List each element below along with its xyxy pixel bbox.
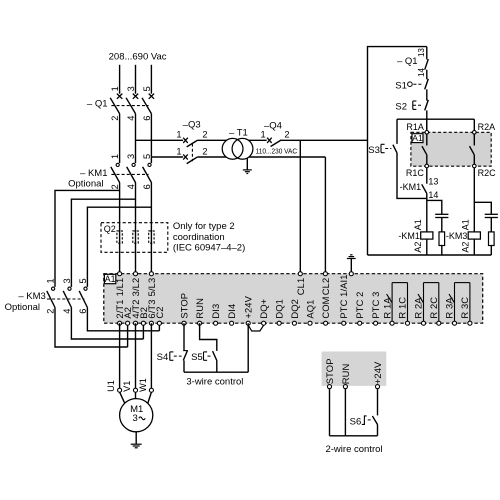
contactor KM3 pole contact 5-6 [79, 287, 87, 307]
svg-text:2-wire control: 2-wire control [325, 444, 382, 455]
pushbutton S2 contact [413, 100, 429, 111]
coil KM3 [468, 232, 480, 239]
svg-text:R 2C: R 2C [428, 297, 439, 319]
svg-text:Q2: Q2 [104, 224, 116, 234]
terminal +24V [246, 321, 250, 325]
ground motor [131, 432, 142, 448]
terminal PTC 1/AI1 [342, 321, 346, 325]
wire bypass tap 1 [55, 190, 120, 287]
capacitor snubber 2 [485, 214, 498, 217]
capacitor snubber 1 [435, 214, 448, 217]
breaker Q1 mechanical link [111, 105, 148, 107]
wire control return rail [368, 254, 492, 256]
wire S3 branch lower [397, 153, 427, 199]
wire node R1A stub [426, 119, 428, 130]
svg-text:–Q3: –Q3 [183, 120, 201, 131]
wire KM1 to terminal L1 [119, 183, 121, 274]
terminal R 1A [390, 321, 394, 325]
relay contact R2A-R2C [470, 134, 475, 164]
svg-text:U1: U1 [106, 380, 116, 392]
svg-text:2: 2 [110, 116, 120, 121]
svg-text:RUN: RUN [194, 298, 205, 319]
terminal CL2 [323, 272, 327, 276]
wire stub terminal A2 [127, 323, 129, 347]
svg-text:– Q1: – Q1 [87, 98, 108, 109]
terminal 6/T3 [149, 321, 153, 325]
terminal 3/L2 [133, 272, 137, 276]
svg-text:1: 1 [110, 86, 120, 91]
wire bypass tap 2 [71, 199, 135, 287]
fuse group Q2 dashed box [101, 223, 168, 253]
wire KM1 to terminal L2 [135, 183, 137, 274]
svg-text:(IEC 60947–4–2): (IEC 60947–4–2) [173, 243, 245, 254]
switch S6 contact [362, 416, 378, 425]
breaker Q1 pole contact 3-4 [126, 94, 138, 114]
wire stub terminal C2 [158, 323, 160, 331]
wire KM1 coil to rail [426, 239, 428, 255]
svg-text:S1: S1 [395, 80, 407, 91]
contactor KM3 pole contact 1-2 [47, 287, 55, 307]
terminal 2/T1 [118, 321, 122, 325]
svg-text:Optional: Optional [68, 178, 103, 189]
terminal PTC 3 [374, 321, 378, 325]
wire S6 to rail [377, 425, 379, 436]
2-wire control box [322, 352, 387, 386]
wire S4 to rail [183, 360, 185, 372]
svg-text:C2: C2 [154, 306, 165, 318]
svg-text:1: 1 [176, 146, 181, 156]
svg-text:5: 5 [142, 154, 152, 159]
wire RUN to S5 [200, 323, 217, 351]
wire supply drop L1 [119, 65, 121, 94]
terminal earth [349, 272, 353, 276]
wire Q1aux to S1 [426, 70, 428, 80]
wire resistor 1 to rail [441, 246, 443, 256]
svg-text:RUN: RUN [340, 364, 351, 385]
wire U1 to motor [120, 392, 125, 404]
wire W1 to motor [148, 392, 152, 404]
svg-text:A2: A2 [460, 242, 470, 253]
node R2A [473, 131, 477, 135]
svg-text:-KM3: -KM3 [446, 231, 468, 241]
terminal COM [324, 321, 328, 325]
terminal R 1C [405, 321, 409, 325]
wire S2 to node R1A [426, 110, 428, 130]
wire R2C to KM3 coil [473, 168, 475, 232]
auxiliary contact Q1 13-14 [425, 47, 429, 70]
svg-text:1/L1: 1/L1 [114, 278, 125, 297]
terminal CL1 [298, 272, 302, 276]
device code box A1 main [104, 274, 115, 283]
wire RC snubber 1 tee [427, 200, 442, 214]
contactor KM1 pole contact 5-6 [143, 163, 152, 182]
terminal PTC 2 [358, 321, 362, 325]
node R2C [473, 164, 477, 168]
wire supply drop L3 [150, 65, 152, 94]
wire Q1 to KM1 phase 3 [150, 114, 152, 164]
fuse Q2 element 3 [149, 231, 154, 243]
pushbutton S5 NO contact [204, 351, 217, 360]
terminal R 3A [452, 321, 456, 325]
node R1C [425, 164, 429, 168]
terminal B2 [141, 321, 145, 325]
wire capacitor 2 to resistor 2 [490, 218, 492, 232]
svg-text:+24V: +24V [243, 295, 254, 318]
svg-text:110...230 VAC: 110...230 VAC [256, 146, 298, 155]
relay output contact R1A-R1C [387, 283, 408, 324]
terminal C2 [157, 321, 161, 325]
auxiliary contact KM1 13-14 [422, 184, 427, 193]
svg-text:2: 2 [110, 184, 120, 189]
fuse Q2 element 2 [133, 231, 138, 243]
svg-text:Only for type 2: Only for type 2 [173, 221, 235, 232]
wire KM3 pole1 to A2 [55, 308, 128, 348]
wire +24V to S6 [377, 389, 379, 416]
wire S5 to rail [216, 361, 218, 373]
svg-text:6: 6 [78, 309, 88, 314]
svg-text:R1A: R1A [406, 122, 424, 132]
svg-text:1: 1 [110, 154, 120, 159]
wire S3 branch upper [396, 119, 398, 144]
terminal R 3C [468, 321, 472, 325]
svg-text:4: 4 [126, 116, 136, 121]
transformer T1 secondary winding [232, 138, 253, 159]
svg-text:Optional: Optional [5, 302, 40, 313]
svg-text:S2: S2 [395, 102, 407, 113]
svg-text:208...690 Vac: 208...690 Vac [109, 52, 167, 63]
wire Q1 to KM1 phase 1 [119, 114, 121, 164]
wire bypass tap 3 [87, 207, 151, 287]
fuse Q2 element 1 [117, 231, 122, 243]
wire rail R1A-R2A [397, 118, 474, 120]
terminal RUN [198, 321, 202, 325]
svg-text:DI4: DI4 [226, 304, 237, 319]
pushbutton S1 contact [408, 79, 429, 90]
svg-text:W1: W1 [138, 378, 148, 392]
wire CL1 drop [299, 140, 301, 273]
svg-text:S3: S3 [368, 145, 380, 156]
svg-text:PTC 3: PTC 3 [370, 292, 381, 319]
svg-text:-KM1: -KM1 [398, 231, 420, 241]
wire CL2 drop [324, 157, 326, 274]
wire STOP to S4 [183, 323, 185, 350]
coil KM1 [421, 232, 433, 239]
terminal AQ1 [308, 321, 312, 325]
svg-text:5: 5 [78, 278, 88, 283]
terminal U1 [118, 388, 122, 392]
contactor KM3 pole contact 3-4 [63, 287, 71, 307]
terminal DI3 [214, 321, 218, 325]
wire tap phase2 to Q3 upper [136, 139, 184, 141]
transformer T1 primary winding [222, 138, 243, 159]
wire resistor 2 to rail [490, 246, 492, 256]
svg-text:A1: A1 [412, 133, 423, 143]
svg-text:13: 13 [428, 176, 438, 186]
motor M1 body [120, 399, 153, 432]
svg-text:– T1: – T1 [229, 128, 248, 139]
terminal W1 [149, 388, 153, 392]
relay output contact R3A-R3C [449, 283, 470, 324]
wire 4/T2 to V1 [135, 323, 137, 388]
terminal R 2A [421, 321, 425, 325]
svg-text:STOP: STOP [179, 293, 190, 319]
device code box A1 [412, 134, 423, 143]
svg-text:1: 1 [176, 130, 181, 140]
svg-text:5/L3: 5/L3 [146, 278, 157, 297]
wire R1C to KM1 aux [426, 168, 428, 184]
wire capacitor 1 to resistor 1 [441, 218, 443, 232]
terminal DI4 [230, 321, 234, 325]
node R1A [425, 131, 429, 135]
svg-text:3: 3 [126, 86, 136, 91]
wire 6/T3 to W1 [150, 323, 152, 388]
ground T1 [243, 158, 252, 174]
terminal +24V 2-wire [375, 385, 379, 389]
svg-text:+24V: +24V [372, 361, 383, 384]
svg-text:A1: A1 [460, 219, 470, 230]
switch Q4 contact [267, 138, 281, 147]
svg-text:R 1C: R 1C [397, 297, 408, 319]
svg-text:2: 2 [46, 309, 56, 314]
terminal DQ1 [277, 321, 281, 325]
svg-text:PTC 2: PTC 2 [354, 292, 365, 319]
resistor snubber 1 [439, 232, 445, 246]
earth terminal of soft starter [347, 255, 356, 274]
breaker Q3 upper pole [183, 138, 198, 147]
terminal STOP 2-wire [327, 385, 331, 389]
svg-text:S5: S5 [191, 352, 203, 363]
svg-text:R2C: R2C [478, 168, 497, 178]
contactor KM3 mechanical link [47, 298, 84, 300]
breaker Q3 lower pole [183, 154, 198, 163]
svg-text:4: 4 [62, 309, 72, 314]
svg-text:CL2: CL2 [320, 278, 331, 296]
svg-text:6: 6 [142, 184, 152, 189]
breaker Q1 pole contact 5-6 [142, 94, 154, 114]
terminal V1 [133, 388, 137, 392]
wire S1 to S2 [426, 89, 428, 100]
svg-text:2: 2 [202, 146, 207, 156]
svg-text:1: 1 [261, 130, 266, 140]
svg-text:1: 1 [46, 278, 56, 283]
svg-text:14: 14 [428, 190, 438, 200]
contactor KM1 pole contact 1-2 [111, 163, 120, 182]
soft starter A1 body [104, 274, 483, 324]
svg-text:A2: A2 [413, 242, 423, 253]
svg-text:5: 5 [142, 86, 152, 91]
relay outputs dashed box [411, 132, 491, 166]
svg-text:R 3C: R 3C [459, 297, 470, 319]
svg-text:V1: V1 [122, 381, 132, 392]
svg-text:R2A: R2A [478, 122, 496, 132]
wire KM1 aux to coil [426, 194, 428, 233]
svg-text:DQ+: DQ+ [258, 298, 269, 318]
terminal RUN 2-wire [343, 385, 347, 389]
wire Q3 to T1 upper [198, 139, 267, 141]
relay contact R1A-R1C [422, 134, 427, 164]
wire Q4 to control column [281, 139, 367, 141]
breaker Q3 mechanical link [191, 144, 193, 162]
svg-text:4: 4 [126, 184, 136, 189]
svg-text:DQ1: DQ1 [274, 299, 285, 319]
svg-text:– KM1: – KM1 [80, 168, 107, 179]
svg-text:3-wire control: 3-wire control [186, 376, 243, 387]
svg-text:3: 3 [126, 154, 136, 159]
wire RUN 2-wire [344, 389, 346, 436]
svg-text:3: 3 [133, 413, 138, 424]
wire jumper +24V to DQ+ [248, 325, 263, 331]
svg-text:COM: COM [320, 296, 331, 318]
wire V1 to motor [135, 392, 137, 399]
terminal R 2C [437, 321, 441, 325]
svg-text:A1: A1 [413, 219, 423, 230]
svg-text:2: 2 [284, 130, 289, 140]
svg-text:– KM3: – KM3 [18, 291, 45, 302]
svg-text:2: 2 [202, 130, 207, 140]
svg-text:S4: S4 [157, 352, 169, 363]
wire +24V drop [247, 323, 249, 372]
wire Q1 to KM1 phase 2 [135, 114, 137, 164]
svg-text:S6: S6 [350, 416, 362, 427]
svg-text:DI3: DI3 [210, 304, 221, 319]
wire supply drop L2 [135, 65, 137, 94]
svg-text:– Q1: – Q1 [397, 56, 418, 67]
wire Q3 to CL2 lower [198, 156, 326, 158]
svg-text:CL1: CL1 [295, 278, 306, 296]
terminal 4/T2 [133, 321, 137, 325]
svg-text:14: 14 [417, 68, 426, 77]
wire control feed riser [368, 47, 427, 255]
wire KM1 to terminal L3 [150, 183, 152, 274]
svg-text:-KM1: -KM1 [400, 182, 422, 192]
wire KM3 coil to rail [473, 239, 475, 255]
contactor KM1 mechanical link [111, 173, 148, 175]
relay output contact R2A-R2C [418, 283, 439, 324]
wire 3-wire rail [184, 371, 248, 373]
pushbutton S4 NC contact [170, 350, 188, 360]
svg-text:AQ1: AQ1 [305, 300, 316, 319]
terminal A2 [126, 321, 130, 325]
terminal 5/L3 [149, 272, 153, 276]
wire RC snubber 2 tee [474, 202, 491, 214]
terminal DQ2 [292, 321, 296, 325]
terminal STOP [182, 321, 186, 325]
resistor snubber 2 [489, 232, 495, 246]
svg-text:DQ2: DQ2 [289, 299, 300, 319]
wire 2-wire rail [330, 435, 378, 437]
wire tap phase3 to Q3 lower [151, 156, 183, 158]
svg-text:13: 13 [417, 48, 426, 57]
wire STOP 2-wire [329, 389, 331, 436]
wire R2A feed [473, 119, 475, 130]
svg-text:–Q4: –Q4 [264, 120, 282, 131]
contactor KM1 pole contact 3-4 [127, 163, 136, 182]
svg-text:coordination: coordination [173, 232, 225, 243]
svg-text:3: 3 [62, 278, 72, 283]
svg-text:6: 6 [142, 116, 152, 121]
breaker Q1 pole contact 1-2 [110, 94, 122, 114]
wire stub terminal B2 [142, 323, 144, 339]
wire 2/T1 to U1 [119, 323, 121, 388]
svg-text:3/L2: 3/L2 [130, 278, 141, 297]
wire KM3 pole3 to C2 [87, 308, 159, 331]
terminal 1/L1 [118, 272, 122, 276]
svg-text:STOP: STOP [324, 358, 335, 384]
wire KM3 pole2 to B2 [71, 308, 143, 340]
switch S3 contact [381, 144, 397, 153]
svg-text:R1C: R1C [406, 168, 425, 178]
svg-text:PTC 1/AI1: PTC 1/AI1 [338, 274, 349, 318]
terminal DQ+ [262, 321, 266, 325]
